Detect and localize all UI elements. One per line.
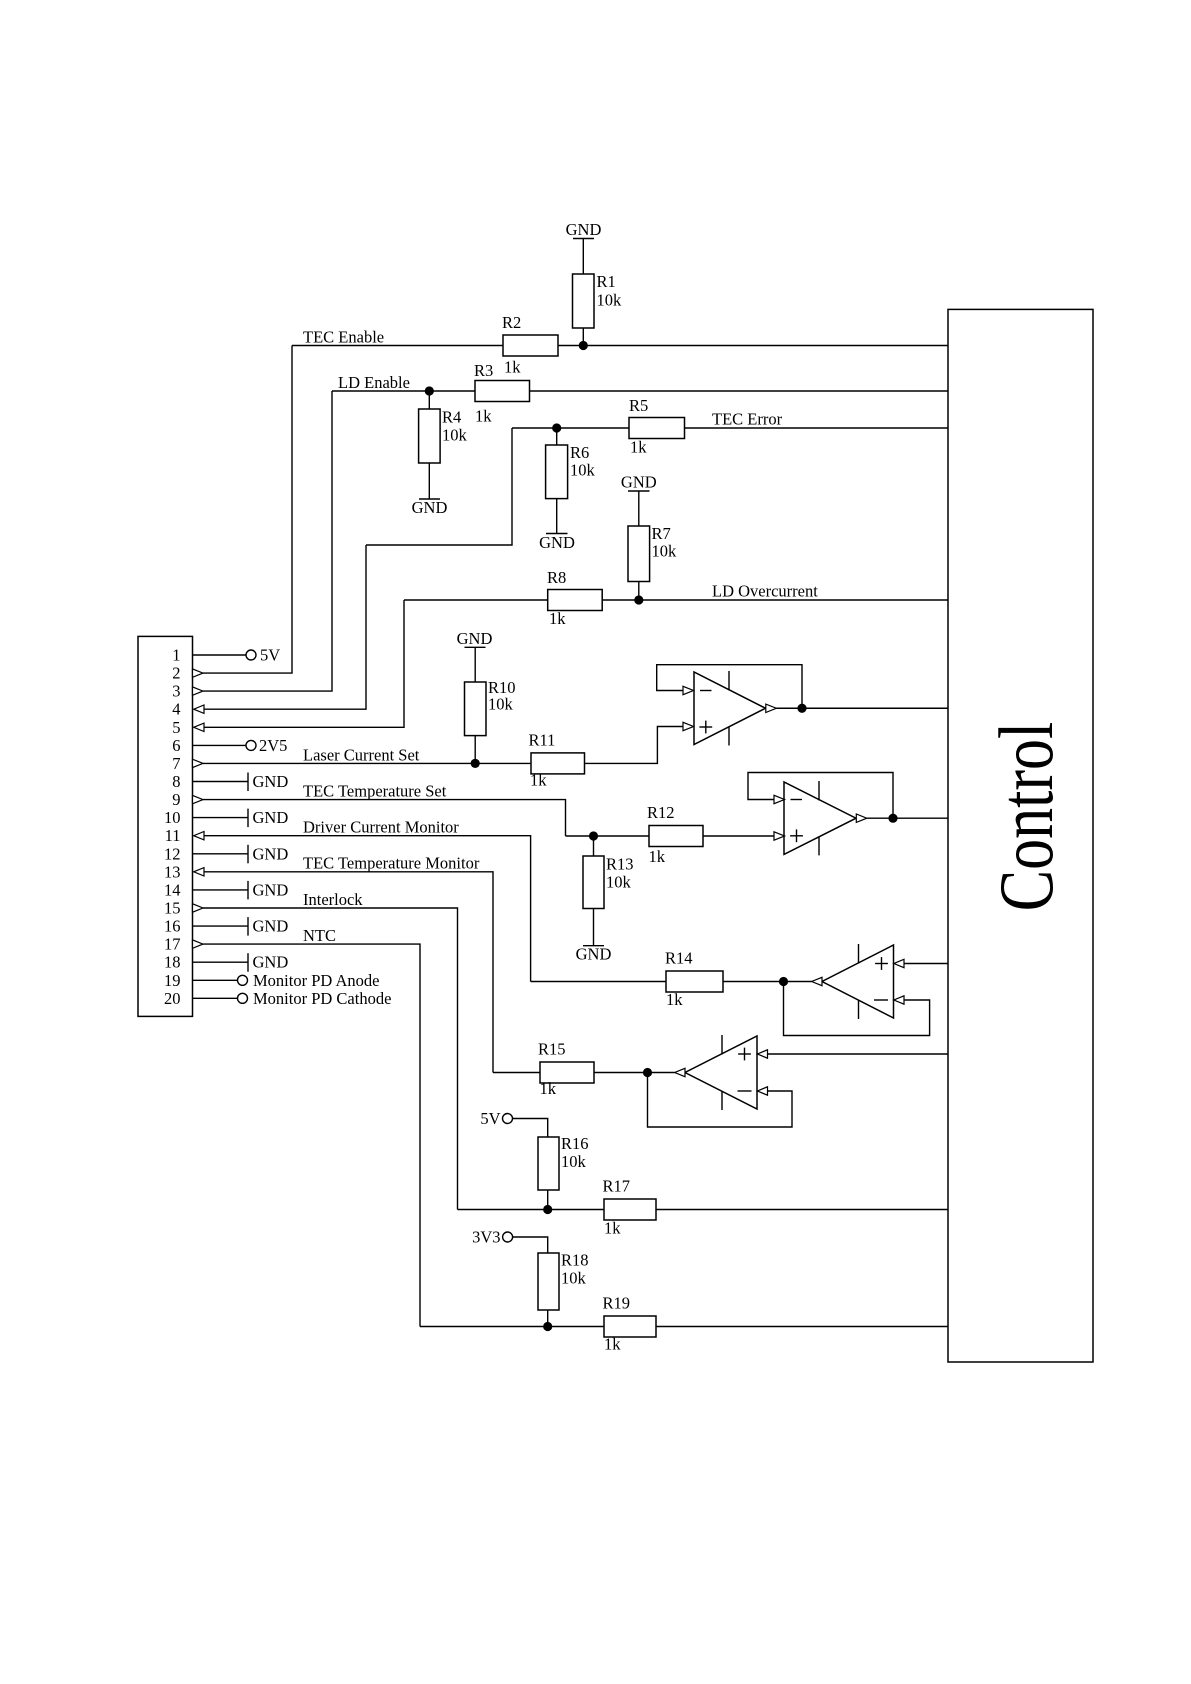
junction NTC / R18 [543,1322,552,1331]
wire 5V to R16 [513,1119,548,1138]
op-amp U2 [784,781,856,855]
svg-text:1k: 1k [604,1335,621,1354]
svg-text:Laser Current Set: Laser Current Set [303,746,420,765]
resistor R10 [465,678,516,736]
U4 minus input arrow [757,1087,767,1095]
svg-text:GND: GND [253,844,289,863]
svg-text:NTC: NTC [303,926,336,945]
ground symbol above R7 [621,473,657,527]
U4 plus input arrow [757,1050,767,1058]
resistor R1 [573,272,623,328]
svg-text:R14: R14 [665,949,693,968]
svg-text:R17: R17 [603,1177,631,1196]
junction Interlock / R16 [543,1205,552,1214]
svg-text:13: 13 [164,862,181,881]
svg-text:1k: 1k [540,1079,557,1098]
svg-text:10: 10 [164,808,181,827]
svg-text:R5: R5 [629,396,648,415]
svg-text:R8: R8 [547,568,566,587]
resistor R6 [546,443,596,499]
connector J1 [138,636,193,1016]
svg-text:TEC Temperature Set: TEC Temperature Set [303,782,447,801]
pin 15 output arrow [193,904,204,912]
resistor R13 [583,855,634,909]
junction U2 output [888,814,897,823]
wire R5 to control [685,427,949,429]
svg-text:LD Enable: LD Enable [338,373,410,392]
svg-text:LD Overcurrent: LD Overcurrent [712,582,818,601]
pin 17 wire NTC [203,944,420,1326]
U1 plus input arrow [683,722,694,730]
pin 17 output arrow [193,940,204,948]
svg-text:GND: GND [253,808,289,827]
svg-text:GND: GND [412,498,448,517]
resistor R3 [474,361,530,426]
junction U1 output [797,704,806,713]
resistor R7 [628,524,677,582]
wire Interlock riser to R17 [458,1209,605,1211]
svg-text:10k: 10k [561,1269,587,1288]
svg-text:TEC Enable: TEC Enable [303,328,384,347]
U4 output arrow [675,1068,685,1076]
svg-text:2V5: 2V5 [259,736,287,755]
svg-text:1k: 1k [630,438,647,457]
svg-text:10k: 10k [597,291,623,310]
svg-text:R13: R13 [606,855,634,874]
U2 output wire to control [867,817,948,819]
wire R10 to Laser Current Set net [474,736,476,764]
U4 feedback wire [648,1073,793,1128]
op-amp U4 [685,1035,757,1110]
pin 7 wire Laser Current Set [203,762,531,764]
U3 minus input arrow [894,996,904,1004]
svg-text:4: 4 [172,700,180,719]
svg-text:7: 7 [172,754,180,773]
pin 2 output arrow [193,669,204,677]
control block U5 [948,309,1093,1362]
svg-text:3: 3 [172,682,180,701]
svg-text:20: 20 [164,989,181,1008]
pin 13 wire TEC Temperature Monitor [204,872,493,1073]
svg-text:R4: R4 [442,408,461,427]
3V3 supply circle [503,1232,513,1242]
svg-text:R16: R16 [561,1134,589,1153]
wire R19 to control [656,1326,948,1328]
wire R14 to U3 output [723,981,812,983]
ground symbol below R13 [576,945,612,964]
resistor R4 [419,408,468,464]
junction TEC Enable / R1 [579,341,588,350]
wire 3V3 to R18 [513,1237,548,1253]
svg-text:10k: 10k [488,695,514,714]
wire R17 to control [656,1209,948,1211]
wire R15 to U4 output [594,1072,675,1074]
svg-text:10k: 10k [652,542,678,561]
svg-text:R12: R12 [647,803,675,822]
wire R6 top [556,428,558,445]
wire Driver Current Monitor riser to R14 [531,981,666,983]
junction U3 output [779,977,788,986]
svg-text:14: 14 [164,880,181,899]
svg-text:11: 11 [165,826,181,845]
pin 3 output arrow [193,687,204,695]
svg-text:10k: 10k [561,1152,587,1171]
U1 feedback wire [657,665,802,709]
U1 output arrow [766,704,777,712]
wire R18 to NTC net [547,1310,549,1327]
wire LD Enable riser to R3 [332,390,475,392]
pin 11 wire Driver Current Monitor [204,836,531,982]
resistor R5 [629,396,685,457]
pin 9 output arrow [193,795,204,803]
junction LD Enable / R4 [425,386,434,395]
svg-text:R11: R11 [529,731,556,750]
svg-text:6: 6 [172,736,180,755]
pin 1 5V terminal circle [246,650,256,660]
svg-text:1k: 1k [666,990,683,1009]
svg-text:1k: 1k [504,358,521,377]
resistor R14 [665,949,723,1010]
svg-text:GND: GND [253,917,289,936]
svg-text:1k: 1k [549,609,566,628]
pin 19 terminal circle [238,975,248,985]
svg-text:16: 16 [164,917,181,936]
U3 plus input arrow [894,959,904,967]
svg-text:3V3: 3V3 [472,1228,500,1247]
svg-text:R1: R1 [597,272,616,291]
svg-text:GND: GND [457,629,493,648]
wire R13 to ground [593,909,595,946]
pin 13 input arrow [194,868,204,876]
op-amp U3 [822,944,894,1019]
svg-text:5V: 5V [480,1109,500,1128]
resistor R11 [529,731,585,790]
svg-text:R7: R7 [652,524,671,543]
svg-text:R18: R18 [561,1251,589,1270]
pin 5 input arrow [194,723,204,731]
svg-text:R3: R3 [474,361,493,380]
wire R2 to control [558,345,948,347]
pin 2 wire TEC Enable [203,346,292,674]
svg-text:R2: R2 [502,313,521,332]
svg-text:18: 18 [164,953,181,972]
resistor R19 [603,1294,657,1354]
wire TEC Temperature Monitor riser to R15 [493,1072,540,1074]
pin 11 input arrow [194,832,204,840]
resistor R2 [502,313,558,377]
ground symbol above R1 [566,220,602,274]
pin 5 wire LD Overcurrent [204,600,404,727]
pin 15 wire Interlock [203,908,458,1210]
svg-text:GND: GND [576,945,612,964]
U2 minus input arrow [774,795,785,803]
pin 16 GND stub [193,917,289,936]
junction Laser Current Set / R10 [471,759,480,768]
U3 feedback wire [784,982,930,1036]
svg-text:GND: GND [253,953,289,972]
svg-text:8: 8 [172,772,180,791]
resistor R8 [547,568,602,628]
ground symbol below R4 [412,498,448,517]
svg-text:Interlock: Interlock [303,890,363,909]
svg-text:1k: 1k [475,407,492,426]
junction LD Overcurrent / R7 [634,595,643,604]
wire R1 to TEC Enable net [582,328,584,346]
svg-text:1k: 1k [649,847,666,866]
U4 plus input wire from control [768,1053,949,1055]
pin 18 GND stub [193,953,289,972]
pin 14 GND stub [193,880,289,899]
U1 minus input arrow [683,686,694,694]
junction U4 output [643,1068,652,1077]
svg-text:GND: GND [539,533,575,552]
resistor R18 [538,1251,589,1311]
U3 output arrow [812,977,822,985]
junction TEC Temperature Set / R13 [589,831,598,840]
svg-text:12: 12 [164,844,181,863]
svg-text:2: 2 [172,664,180,683]
svg-text:GND: GND [253,880,289,899]
wire TEC Error net horizontal [512,427,629,429]
U1 output wire to control [776,707,948,709]
wire R7 to LD Overcurrent net [638,582,640,601]
resistor R15 [538,1040,594,1099]
ground symbol below R6 [539,533,575,552]
wire R4 to ground [428,463,430,499]
op-amp U1 [694,671,766,746]
pin 20 terminal circle [238,993,248,1003]
svg-text:Monitor PD Cathode: Monitor PD Cathode [253,989,391,1008]
svg-text:R6: R6 [570,443,589,462]
wire R13 top [593,836,595,856]
pin 10 GND stub [193,808,289,827]
pin 8 GND stub [193,772,289,791]
svg-text:TEC Temperature Monitor: TEC Temperature Monitor [303,854,480,873]
U2 plus input arrow [774,832,785,840]
pin 3 wire LD Enable [203,391,332,691]
pin 12 GND stub [193,844,289,863]
ground symbol above R10 [457,629,493,682]
svg-text:10k: 10k [570,461,596,480]
svg-text:17: 17 [164,935,181,954]
wire R16 to Interlock net [547,1190,549,1210]
wire R12 to U2 plus input [703,835,774,837]
pin 7 output arrow [193,759,204,767]
wire R3 to control [530,390,949,392]
svg-text:1k: 1k [604,1219,621,1238]
U3 plus input wire from control [904,963,948,965]
svg-text:Driver Current Monitor: Driver Current Monitor [303,818,459,837]
svg-text:15: 15 [164,899,181,918]
svg-text:TEC Error: TEC Error [712,410,783,429]
svg-text:5: 5 [172,718,180,737]
pin 19 wire [193,979,238,981]
wire R8 to control [602,599,948,601]
resistor R16 [538,1134,589,1190]
svg-text:19: 19 [164,971,181,990]
pin 4 input arrow [194,705,204,713]
junction TEC Error / R6 [552,423,561,432]
svg-text:Control: Control [985,722,1070,911]
wire TEC Error to pin 4 path [366,428,512,545]
svg-text:R19: R19 [603,1294,631,1313]
svg-text:GND: GND [253,772,289,791]
pin 6 wire [193,744,247,746]
svg-text:1: 1 [172,646,180,665]
svg-text:10k: 10k [442,426,468,445]
pin 20 wire [193,997,238,999]
svg-text:1k: 1k [530,771,547,790]
svg-text:5V: 5V [260,646,280,665]
pin 9 wire TEC Temperature Set [203,800,566,836]
wire LD Overcurrent riser to R8 [404,599,548,601]
svg-text:Monitor PD Anode: Monitor PD Anode [253,971,380,990]
resistor R17 [603,1177,657,1238]
wire TEC Temperature Set to R12 [566,835,650,837]
U2 output arrow [856,814,867,822]
svg-text:R15: R15 [538,1040,566,1059]
resistor R12 [647,803,703,866]
svg-text:10k: 10k [606,873,632,892]
wire NTC riser to R19 [420,1326,604,1328]
wire TEC Enable riser to R2 [292,345,503,347]
wire R11 to U1 plus input [585,727,684,764]
wire R6 to ground [556,499,558,534]
pin 6 2V5 terminal circle [246,740,256,750]
pin 1 wire [193,654,247,656]
wire R4 top [428,391,430,409]
svg-text:9: 9 [172,790,180,809]
5V supply circle [503,1114,513,1124]
svg-text:GND: GND [621,473,657,492]
pin 4 wire TEC Error [204,545,366,709]
U2 feedback wire [748,773,893,819]
svg-text:GND: GND [566,220,602,239]
